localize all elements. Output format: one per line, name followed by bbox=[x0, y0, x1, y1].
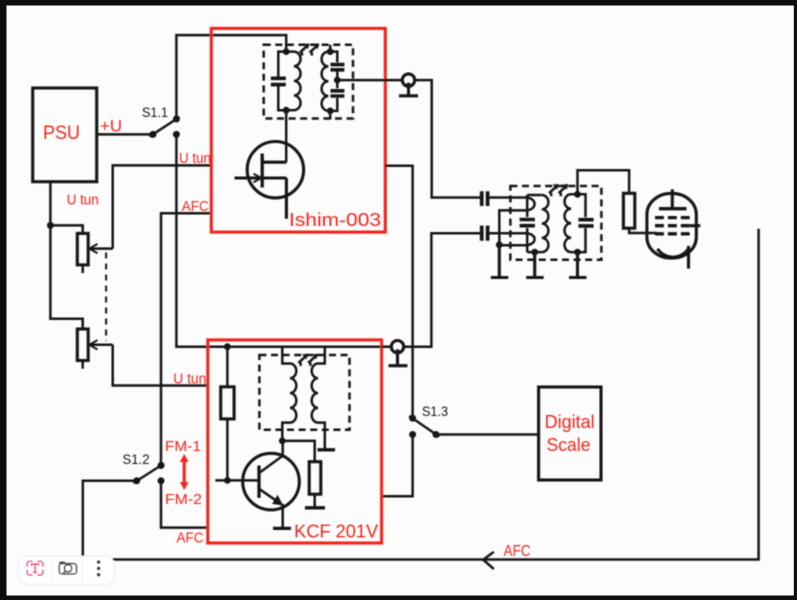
connector K1 bbox=[399, 74, 418, 96]
Digital Scale box bbox=[539, 387, 601, 480]
icon translate (T with brackets) bbox=[27, 561, 43, 575]
icon menu dots bbox=[97, 560, 101, 576]
winding L4 (right) bbox=[312, 347, 325, 449]
wire S1.1 down +U feed to KCF and connector K2 bbox=[176, 134, 390, 346]
svg-text:AFC: AFC bbox=[182, 198, 209, 215]
svg-text:Digital: Digital bbox=[545, 412, 595, 432]
resistor R3 (KCF base feed) bbox=[221, 347, 234, 481]
node tank L1 top bbox=[283, 48, 290, 55]
svg-text:Ishim-003: Ishim-003 bbox=[289, 210, 381, 230]
svg-text:PSU: PSU bbox=[43, 123, 80, 144]
wire Ishim tap output to connector K1 bbox=[337, 79, 402, 82]
bottom AFC feedback wire bbox=[83, 229, 759, 560]
svg-text:FM-2: FM-2 bbox=[165, 491, 202, 508]
node cap tap bbox=[334, 77, 341, 84]
transistor VT2 bbox=[243, 441, 300, 528]
ground emitter bbox=[273, 527, 291, 530]
FM range arrow (red, double headed) bbox=[180, 454, 189, 490]
wire pot2 wiper U tun to KCF bbox=[113, 345, 208, 386]
wire S1.3 to Digital Scale bbox=[436, 433, 539, 436]
resistor R5 bbox=[623, 193, 657, 233]
connector K2 bbox=[382, 341, 408, 366]
tank L2: coil + two series caps with tap bbox=[322, 45, 345, 120]
ground links bbox=[491, 245, 509, 278]
svg-text:U tun: U tun bbox=[179, 150, 211, 167]
KCF 201V block box bbox=[208, 340, 382, 543]
AFC arrow (left pointing) bbox=[483, 552, 494, 569]
wire pot1 wiper U tun to Ishim bbox=[113, 165, 212, 248]
trimmer arrow 1 (Ishim) bbox=[300, 43, 310, 55]
tank L6: coil + cap loop bbox=[565, 194, 594, 252]
wire S1.3 lower to KCF output bbox=[382, 435, 413, 497]
ground under L6 bbox=[569, 252, 587, 277]
vacuum tube V1 bbox=[647, 189, 700, 268]
svg-text:U tun: U tun bbox=[173, 370, 206, 387]
trimmer arrow 2 (IF) bbox=[559, 184, 569, 196]
coupling capacitor C2 bbox=[482, 226, 526, 241]
wire K2 to coupling cap C2 bbox=[404, 233, 481, 347]
IF transformer shield (dashed) bbox=[510, 186, 601, 260]
potentiometer R1 (upper) bbox=[77, 233, 112, 273]
node link ground junction bbox=[496, 241, 503, 248]
ground under R4 bbox=[305, 506, 325, 509]
switch S1.2 bbox=[133, 462, 164, 484]
svg-text:U tun: U tun bbox=[67, 192, 99, 209]
trimmer arrow 2 (Ishim) bbox=[310, 43, 320, 55]
node base junction bbox=[224, 477, 231, 484]
winding L3 (left) bbox=[282, 347, 296, 441]
node KCF R3 top bbox=[224, 343, 231, 350]
svg-text:FM-1: FM-1 bbox=[165, 438, 201, 455]
wire PSU bottom to potentiometers bbox=[50, 182, 82, 329]
wire S1.2 left contact to bottom AFC line bbox=[83, 481, 137, 557]
node L6 top bbox=[574, 191, 581, 198]
trimmer arrow 2 (KCF) bbox=[308, 354, 318, 366]
wire collector node to R4 bbox=[283, 441, 315, 462]
svg-text:AFC: AFC bbox=[177, 529, 204, 546]
svg-text:AFC: AFC bbox=[504, 543, 531, 560]
potentiometer R2 (lower) bbox=[77, 329, 112, 369]
PSU box bbox=[33, 88, 97, 182]
wire K1 to coupling cap C1 bbox=[415, 80, 481, 197]
svg-text:+U: +U bbox=[100, 117, 122, 136]
wire base stub bbox=[215, 479, 259, 482]
node L6 ground bbox=[574, 249, 581, 256]
wire PSU to S1.1 bbox=[97, 133, 153, 136]
svg-text:Scale: Scale bbox=[547, 435, 591, 455]
switch S1.3 bbox=[409, 415, 439, 438]
ground under L5 bbox=[526, 252, 544, 277]
Ishim-003 block box bbox=[211, 28, 385, 232]
ground under L4 bbox=[318, 448, 336, 451]
resistor R4 bbox=[309, 462, 321, 508]
trimmer arrow 1 (KCF) bbox=[298, 354, 308, 366]
wire S1.2 lower to KCF AFC input bbox=[161, 481, 208, 528]
svg-text:S1.1: S1.1 bbox=[142, 104, 168, 120]
node tank L1 bottom bbox=[283, 107, 290, 114]
wire S1.1 top to Ishim input bbox=[176, 35, 286, 119]
dashed gang link pots bbox=[105, 253, 107, 342]
tank L1: cap + coil loop bbox=[271, 52, 301, 111]
node tank L2 bottom bbox=[327, 108, 334, 115]
overlay toolbar pill bbox=[18, 556, 114, 584]
switch S1.1 bbox=[150, 116, 180, 138]
node PSU-pot junction bbox=[47, 222, 54, 229]
FET VT1 bbox=[235, 142, 304, 219]
node tank L2 top bbox=[327, 48, 334, 55]
coupling link bottom (loop) bbox=[499, 233, 534, 245]
svg-text:S1.2: S1.2 bbox=[123, 451, 150, 467]
svg-text:S1.3: S1.3 bbox=[422, 403, 448, 419]
KCF transformer shield (dashed) bbox=[259, 355, 349, 430]
node collector junction bbox=[279, 438, 286, 445]
wire Ishim right output to S1.3 bbox=[385, 166, 412, 418]
node L5 ground bbox=[531, 249, 538, 256]
tank L5: cap + coil loop bbox=[520, 195, 549, 252]
coupling capacitor C1 bbox=[482, 191, 526, 206]
coupling link top (loop) bbox=[499, 198, 534, 245]
wire L6 top to resistor R5 bbox=[578, 170, 630, 194]
Ishim IF transformer shield (dashed) bbox=[264, 45, 353, 119]
svg-text:KCF 201V: KCF 201V bbox=[294, 522, 378, 542]
wire AFC from Ishim to S1.2 bbox=[161, 213, 211, 465]
icon camera search bbox=[59, 562, 76, 574]
wire tank L1 to FET drain bbox=[285, 110, 288, 162]
trimmer arrow 1 (IF) bbox=[549, 184, 559, 196]
